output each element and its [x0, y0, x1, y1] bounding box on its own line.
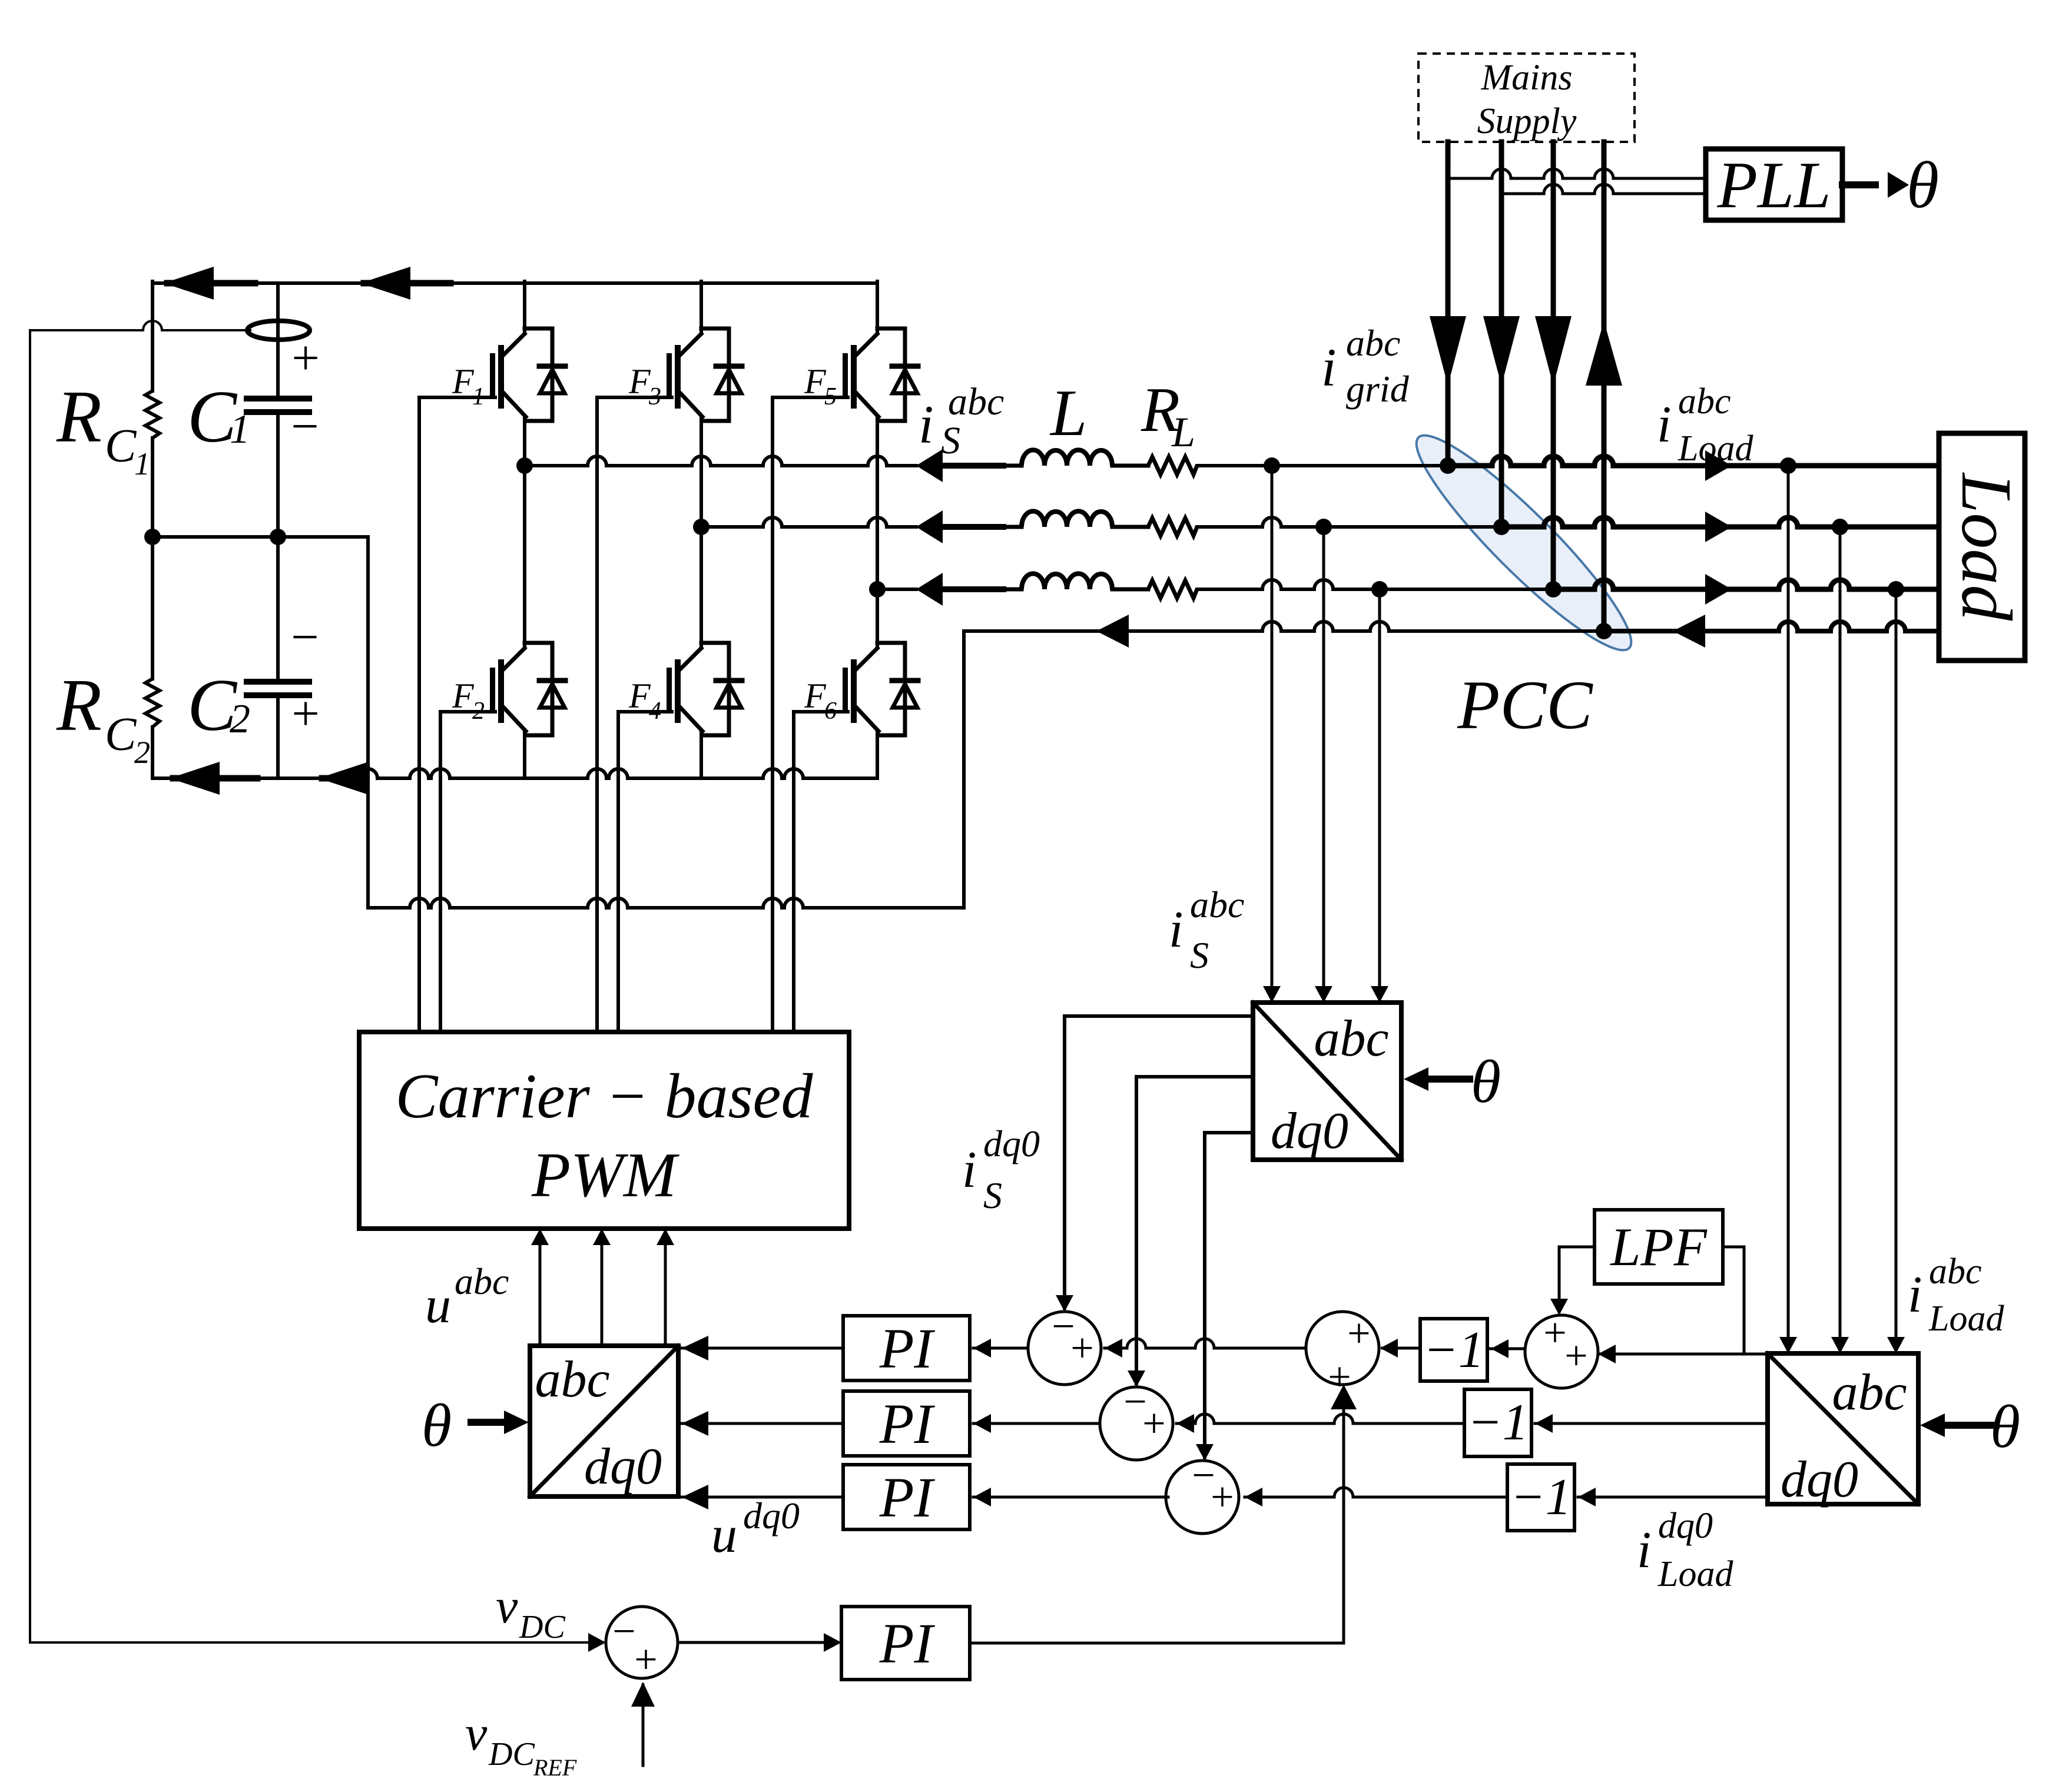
wire iS sense c — [1378, 589, 1381, 1003]
transistor F5 with diode — [877, 327, 905, 331]
wire bottom DC bus — [153, 769, 877, 778]
wire grid phase b — [1499, 142, 1504, 321]
arrow iLoad phase C — [1705, 574, 1732, 605]
arrow igrid b — [1483, 316, 1520, 386]
svg-text:R: R — [56, 665, 102, 746]
svg-text:i: i — [1321, 337, 1337, 397]
svg-text:abc: abc — [455, 1260, 509, 1302]
inductor L phase A — [1022, 450, 1112, 466]
node cap-mid junction — [270, 529, 286, 545]
wire leg2 lower — [699, 527, 703, 648]
arrow grid neutral up — [1586, 321, 1622, 386]
svg-text:L: L — [1049, 377, 1087, 450]
wire u phase a — [539, 1232, 542, 1346]
resistor RL phase B — [1148, 518, 1197, 536]
svg-text:−1: −1 — [1467, 1394, 1528, 1451]
mains supply box — [1418, 54, 1635, 142]
abc-dq0 block iLoad — [1768, 1353, 1918, 1504]
svg-text:F: F — [804, 362, 827, 401]
svg-text:i: i — [962, 1141, 976, 1199]
svg-text:6: 6 — [824, 698, 837, 725]
svg-text:2: 2 — [134, 735, 150, 770]
resistor RC2 — [145, 679, 160, 727]
wire capacitor C2 top lead — [276, 537, 280, 682]
arrow iLoad sense c — [1887, 1337, 1905, 1353]
svg-text:R: R — [56, 376, 102, 458]
svg-text:5: 5 — [824, 383, 837, 410]
wire phase A after inductor — [1003, 464, 1022, 468]
svg-text:abc: abc — [535, 1351, 609, 1408]
svg-text:−: − — [612, 1609, 635, 1654]
wire PI1 to dq block — [682, 1347, 843, 1350]
wire grid neutral — [1602, 142, 1607, 321]
node PCC A — [1440, 457, 1456, 474]
wire leg2 collector — [699, 281, 703, 334]
node phase C junction — [869, 581, 886, 598]
svg-text:1: 1 — [134, 446, 150, 482]
svg-text:+: + — [1543, 1310, 1566, 1356]
svg-text:2: 2 — [472, 698, 485, 725]
svg-text:Load: Load — [1678, 429, 1753, 469]
arrow iLoad sense b — [1831, 1337, 1849, 1353]
theta arrow iLoad block — [1943, 1422, 1996, 1429]
svg-text:F: F — [628, 676, 651, 715]
wire PI3 to dq block — [682, 1496, 843, 1499]
svg-text:PI: PI — [879, 1392, 936, 1455]
arrow LPF into sum E — [1550, 1299, 1568, 1315]
arrow into PI2 — [973, 1414, 991, 1433]
arrow iS phase B — [916, 510, 943, 543]
wire leg3 emitter — [876, 731, 879, 778]
arrow into -1 row3 — [1578, 1488, 1596, 1506]
svg-text:−1: −1 — [1510, 1469, 1571, 1526]
svg-text:DC: DC — [488, 1736, 535, 1773]
wire phase B after inductor — [1003, 525, 1022, 529]
abc-dq0 block iS — [1253, 1003, 1401, 1160]
svg-text:u: u — [425, 1277, 451, 1334]
wire vdc row — [30, 1641, 602, 1644]
svg-text:Load: Load — [1947, 472, 2026, 622]
wire iLoad sense b — [1839, 527, 1842, 1353]
gain -1 row3 — [1507, 1464, 1574, 1531]
svg-text:θ: θ — [422, 1392, 452, 1459]
PI box 4 — [841, 1607, 970, 1680]
svg-text:abc: abc — [1314, 1010, 1388, 1067]
svg-text:v: v — [465, 1706, 488, 1761]
svg-text:abc: abc — [948, 380, 1004, 423]
arrow iS sense a — [1263, 986, 1281, 1003]
wire PI2 to dq block — [682, 1422, 843, 1425]
node PCC B — [1493, 519, 1510, 535]
transistor F6 with diode — [877, 641, 905, 645]
wire vdc sense tap — [30, 321, 250, 330]
wire iS sense b — [1322, 527, 1325, 1003]
wire S3 to PI3 — [973, 1496, 1168, 1499]
svg-text:LPF: LPF — [1609, 1217, 1707, 1277]
wire leg2 emitter — [699, 731, 703, 778]
svg-text:+: + — [291, 686, 319, 741]
svg-text:F: F — [804, 676, 827, 715]
arrow into sum D — [1380, 1339, 1398, 1358]
resistor RC1 — [145, 391, 160, 438]
arrow on bottom bus mid — [319, 762, 369, 795]
svg-text:C: C — [105, 420, 137, 472]
arrow PI4 into sum D — [1331, 1385, 1357, 1409]
arrow u a — [531, 1229, 549, 1245]
arrow PI1 out — [682, 1336, 708, 1360]
svg-text:abc: abc — [1832, 1364, 1907, 1421]
wire u phase c — [664, 1232, 667, 1346]
svg-text:F: F — [452, 676, 475, 715]
wire leg3 collector — [876, 281, 879, 334]
wire sum E to -1 row1 — [1487, 1348, 1525, 1350]
dq0-abc block u — [530, 1346, 678, 1496]
svg-text:3: 3 — [648, 383, 661, 410]
arrow neutral left inner — [1096, 615, 1129, 648]
wire leg3 lower — [876, 589, 879, 648]
node iS tap C — [1371, 581, 1388, 598]
arrow igrid a — [1430, 316, 1466, 386]
wire gate F1 — [417, 397, 421, 1032]
arrow vdcref — [631, 1682, 655, 1707]
wire gate F6 — [792, 712, 795, 1032]
wire u phase b — [601, 1232, 604, 1346]
wire phase C inverter side — [877, 588, 916, 591]
arrow into vdc sum — [588, 1633, 606, 1652]
arrow neutral left outer — [1673, 615, 1705, 648]
svg-text:θ: θ — [1907, 149, 1939, 222]
wire phase C thick — [943, 586, 1003, 592]
node iS tap A — [1264, 457, 1280, 474]
svg-text:−: − — [291, 610, 319, 665]
svg-text:PLL: PLL — [1717, 149, 1831, 222]
svg-text:i: i — [1169, 901, 1183, 958]
wire leg2 mid — [699, 417, 703, 527]
svg-text:i: i — [1637, 1522, 1651, 1579]
wire neutral to load — [964, 622, 1604, 631]
PI box 1 — [843, 1316, 970, 1380]
resistor RL phase C — [1148, 580, 1197, 598]
PCC highlight ellipse — [1398, 417, 1650, 669]
wire gate F2 — [439, 712, 442, 1032]
arrow u b — [593, 1229, 611, 1245]
svg-text:+: + — [634, 1637, 657, 1683]
node rail-mid junction — [144, 529, 161, 545]
wire phase C after inductor — [1003, 588, 1022, 592]
wire vdc feedback left rail — [29, 330, 31, 1642]
wire leg3 mid — [876, 417, 879, 589]
wire neutral horizontal lower — [368, 898, 964, 908]
arrow iS phase C — [916, 573, 943, 606]
svg-text:C: C — [105, 709, 137, 761]
arrow into S2 top — [1128, 1370, 1145, 1387]
arrow iLoad phase B — [1705, 512, 1732, 542]
svg-text:i: i — [1657, 396, 1671, 453]
arrow iLoad sense a — [1779, 1337, 1797, 1353]
PLL box — [1706, 149, 1842, 220]
wire iS sense a — [1271, 466, 1274, 1003]
svg-text:F: F — [628, 362, 651, 401]
wire grid phase a — [1446, 142, 1451, 321]
svg-text:Mains: Mains — [1481, 58, 1573, 98]
wire vdc sum to PI4 — [678, 1641, 838, 1644]
wire gate F3 — [595, 397, 599, 1032]
svg-text:S: S — [1190, 934, 1209, 976]
svg-text:+: + — [1211, 1475, 1234, 1520]
svg-text:i: i — [919, 394, 934, 454]
arrow into -1 row1 — [1491, 1339, 1509, 1358]
wire left DC rail mid — [151, 438, 154, 679]
wire sum D to S1 — [1105, 1339, 1306, 1348]
svg-text:F: F — [452, 362, 475, 401]
svg-text:L: L — [1171, 409, 1195, 456]
wire LPF feed riser — [1743, 1247, 1746, 1354]
inductor L phase C — [1022, 573, 1112, 589]
wire phase B thick — [943, 524, 1003, 530]
capacitor C2 — [247, 679, 309, 685]
svg-text:S: S — [941, 419, 960, 462]
svg-text:PWM: PWM — [531, 1140, 679, 1210]
svg-text:+: + — [291, 331, 319, 386]
wire left DC rail lower — [151, 727, 154, 778]
wire phase A inverter side — [525, 456, 916, 466]
svg-text:dq0: dq0 — [983, 1123, 1040, 1164]
wire iS q out — [1136, 1075, 1253, 1078]
svg-text:PI: PI — [879, 1466, 936, 1529]
svg-text:1: 1 — [230, 407, 250, 452]
voltage sensor loop — [247, 321, 310, 340]
svg-text:dq0: dq0 — [1271, 1103, 1348, 1160]
arrow into S2 right — [1176, 1414, 1194, 1433]
svg-text:Load: Load — [1657, 1554, 1733, 1594]
wire -1 to S2 — [1176, 1414, 1464, 1423]
svg-text:REF: REF — [533, 1754, 577, 1781]
wire leg1 mid — [523, 417, 526, 466]
arrow PI3 out — [682, 1485, 708, 1509]
wire gate F4 — [616, 712, 620, 1032]
arrow u c — [657, 1229, 674, 1245]
svg-text:dq0: dq0 — [1658, 1506, 1713, 1546]
node neutral grid junction — [1596, 623, 1612, 639]
svg-text:abc: abc — [1346, 322, 1400, 364]
arrow on bottom bus left — [170, 762, 220, 795]
svg-text:grid: grid — [1346, 368, 1410, 410]
svg-text:θ: θ — [1471, 1048, 1501, 1116]
wire -1 to sum D row1 — [1383, 1347, 1420, 1350]
arrow on top bus mid — [360, 267, 410, 300]
svg-text:S: S — [983, 1174, 1002, 1216]
wire S1 to PI1 — [973, 1347, 1028, 1350]
wire iS d out — [1065, 1014, 1253, 1018]
svg-text:PI: PI — [879, 1317, 936, 1380]
svg-text:abc: abc — [1678, 381, 1731, 422]
arrow into S1 right — [1105, 1339, 1122, 1358]
wire iLoad sense a — [1787, 466, 1790, 1353]
wire iLoad 0 row — [1578, 1496, 1768, 1499]
arrow into S3 top — [1196, 1444, 1214, 1461]
arrow into PI4 — [824, 1633, 841, 1652]
wire S2 to PI2 — [973, 1422, 1100, 1425]
wire LPF out — [1559, 1246, 1594, 1249]
arrow PLL theta — [1888, 172, 1909, 198]
node phase A junction — [516, 457, 533, 474]
node iLoad tap C — [1888, 581, 1904, 598]
svg-text:Supply: Supply — [1477, 101, 1577, 141]
wire PI4 out — [970, 1642, 1344, 1645]
arrow PI2 out — [682, 1411, 708, 1436]
arrow into PI3 — [973, 1488, 991, 1506]
svg-text:PI: PI — [879, 1612, 936, 1675]
arrow iLoad phase A — [1705, 450, 1732, 481]
svg-text:+: + — [1142, 1401, 1165, 1446]
LPF box — [1594, 1210, 1723, 1284]
node iLoad tap B — [1832, 519, 1848, 535]
svg-text:abc: abc — [1190, 884, 1244, 925]
node iS tap B — [1315, 519, 1332, 535]
wire capacitor mid link — [153, 535, 368, 539]
wire phase B inverter side — [701, 517, 916, 527]
svg-text:2: 2 — [230, 696, 250, 742]
summing junction S2 — [1100, 1387, 1173, 1460]
wire iLoad q row — [1535, 1422, 1768, 1425]
svg-text:+: + — [1347, 1311, 1370, 1356]
transistor F3 with diode — [701, 327, 729, 331]
theta arrow iS block — [1428, 1076, 1470, 1083]
svg-text:−: − — [291, 399, 319, 454]
wire left DC rail upper — [151, 281, 154, 391]
svg-text:PCC: PCC — [1457, 666, 1593, 744]
svg-text:Load: Load — [1928, 1299, 2004, 1339]
svg-text:−1: −1 — [1423, 1322, 1484, 1379]
svg-text:+: + — [1564, 1333, 1587, 1379]
arrow into S3 right — [1245, 1488, 1262, 1506]
Load box — [1939, 433, 2025, 661]
node iLoad tap A — [1780, 457, 1796, 474]
wire capacitor C1 bottom lead — [276, 412, 280, 537]
svg-text:dq0: dq0 — [743, 1495, 800, 1537]
theta arrow u block — [471, 1419, 505, 1426]
wire capacitor C2 bottom lead — [276, 695, 280, 778]
wire iLoad d row — [1598, 1353, 1768, 1356]
wire grid phase c — [1551, 142, 1556, 321]
Carrier-based PWM box — [359, 1032, 849, 1229]
svg-text:abc: abc — [1929, 1252, 1982, 1292]
arrow iS sense c — [1371, 986, 1388, 1003]
wire neutral riser — [962, 631, 966, 908]
wire top DC bus — [153, 281, 877, 285]
node phase B junction — [693, 519, 710, 535]
svg-text:+: + — [1070, 1326, 1093, 1371]
svg-text:v: v — [496, 1579, 518, 1634]
capacitor C1 — [247, 396, 309, 401]
transistor F1 with diode — [525, 327, 552, 331]
wire phase B to load — [1197, 517, 1501, 527]
gain -1 row1 — [1420, 1319, 1487, 1381]
svg-text:4: 4 — [649, 698, 661, 725]
wire leg1 emitter — [523, 731, 526, 778]
arrow into S1 top — [1056, 1295, 1073, 1312]
summing junction D — [1306, 1312, 1379, 1385]
wire gate F5 — [771, 397, 774, 1032]
svg-text:θ: θ — [1990, 1393, 2020, 1461]
arrow into PI1 — [973, 1339, 991, 1358]
PI box 2 — [843, 1391, 970, 1456]
wire PLL sense upper — [1448, 169, 1706, 178]
arrow on top bus left — [164, 267, 214, 300]
resistor RL phase A — [1148, 457, 1197, 474]
wire PLL sense lower — [1501, 184, 1706, 194]
wire leg1 lower — [523, 466, 526, 648]
wire phase C to load — [1197, 580, 1553, 589]
svg-text:DC: DC — [519, 1609, 565, 1645]
summing junction S1 — [1028, 1312, 1101, 1385]
arrow iS phase A — [916, 449, 943, 482]
transistor F2 with diode — [525, 641, 552, 645]
svg-text:dq0: dq0 — [1781, 1451, 1858, 1508]
wire phase A thick — [943, 463, 1003, 469]
wire PLL output — [1842, 181, 1875, 188]
PI box 3 — [843, 1465, 970, 1529]
svg-text:1: 1 — [472, 383, 485, 410]
arrow igrid c — [1535, 316, 1572, 386]
transistor F4 with diode — [701, 641, 729, 645]
gain -1 row2 — [1464, 1389, 1531, 1456]
svg-text:i: i — [1908, 1266, 1922, 1323]
arrow iS sense b — [1315, 986, 1332, 1003]
wire neutral drop from cap midpoint — [366, 537, 370, 908]
wire -1 to S3 — [1245, 1488, 1507, 1497]
wire vdcref — [642, 1685, 645, 1766]
summing junction E — [1525, 1315, 1598, 1388]
node PCC C — [1545, 581, 1562, 598]
svg-text:dq0: dq0 — [584, 1438, 662, 1495]
wire iS 0 out — [1205, 1131, 1253, 1134]
summing junction vdc — [606, 1607, 678, 1678]
summing junction S3 — [1166, 1461, 1239, 1534]
wire iLoad sense c — [1895, 589, 1898, 1353]
svg-text:u: u — [711, 1506, 737, 1564]
wire phase A to load — [1197, 464, 1448, 467]
arrow into -1 row2 — [1535, 1414, 1553, 1433]
arrow into sum E right — [1598, 1345, 1616, 1363]
wire leg1 collector — [523, 281, 526, 334]
inductor L phase B — [1022, 511, 1112, 527]
svg-text:Carrier − based: Carrier − based — [396, 1061, 814, 1131]
wire capacitor branch top — [276, 283, 280, 399]
